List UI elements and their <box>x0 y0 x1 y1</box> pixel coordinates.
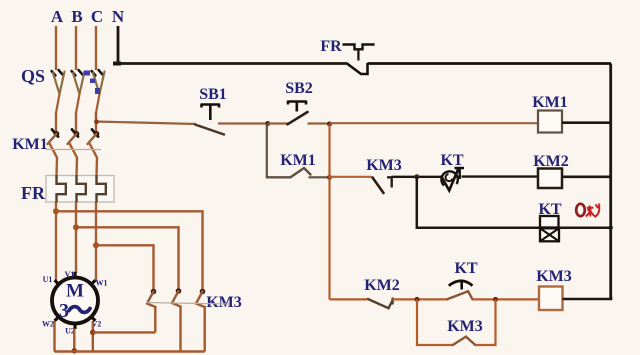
svg-text:V1: V1 <box>65 270 75 279</box>
wire SB1 to node 1 <box>218 122 268 124</box>
wire vertical bus 329 <box>328 124 330 299</box>
wire phase B below FR <box>75 202 77 273</box>
contactor KM1 main pole A <box>48 130 60 177</box>
junction dot right bus <box>609 226 613 230</box>
motor terminal stub W1 upper-right <box>91 280 96 285</box>
wire V2 to KM3 pole1 bottom <box>93 331 156 333</box>
junction dot U2 <box>72 348 78 354</box>
svg-text:B: B <box>71 7 82 26</box>
wire phase C below FR <box>95 202 97 280</box>
wire KM1 aux to node3 <box>309 176 331 178</box>
junction dot node 1 <box>265 121 270 126</box>
pushbutton SB1 blade (NC) <box>195 125 224 135</box>
svg-text:M: M <box>66 281 84 302</box>
disconnect switch QS pole B <box>72 70 85 113</box>
svg-text:QS: QS <box>21 66 45 86</box>
motor terminal stub V2 lower-right <box>91 316 96 321</box>
timer KT delay-close contact (row 3) <box>447 281 472 299</box>
contactor KM2 aux contact (NC) <box>368 299 393 309</box>
wire bottom row from bus 329 <box>330 298 368 300</box>
FR heater element phase C <box>97 175 106 203</box>
junction dot phase A tap <box>53 208 59 214</box>
junction dot node 5 <box>415 297 420 302</box>
control tap from phase C <box>96 113 196 124</box>
contactor KM1 main pole C <box>88 130 100 177</box>
svg-text:A: A <box>51 7 64 26</box>
wire U2 lead down <box>73 329 75 352</box>
junction dot phase C tap <box>93 242 99 248</box>
wire KM2 coil to right bus <box>562 176 611 179</box>
svg-text:KM3: KM3 <box>447 318 483 335</box>
wire KT box to right bus <box>559 226 611 229</box>
svg-text:SB2: SB2 <box>285 80 313 97</box>
thermal contact FR (NC) <box>343 45 612 75</box>
wire KM2 NC to node 5 <box>393 298 448 300</box>
motor M1 circle <box>52 278 98 324</box>
FR heater element phase A <box>57 175 66 203</box>
wire bottom bus W2-U2 to KM3 poles <box>55 350 205 352</box>
wire SB2 to node 2 <box>308 122 331 124</box>
wire phase A tap to KM3 pole 3 <box>56 211 203 291</box>
motor tilde wave <box>69 307 90 313</box>
contactor KM3 aux contact (NO bypass) <box>453 337 476 345</box>
contactor coil KM1 <box>538 111 562 133</box>
wire neutral N vertical <box>117 26 120 64</box>
timer KT delay contact (row 2) <box>441 168 464 191</box>
svg-text:FR: FR <box>320 38 342 55</box>
value label 0s (red) <box>576 204 599 218</box>
wire node1 to SB2 <box>268 122 289 124</box>
disconnect switch QS pole C <box>92 70 105 113</box>
timer KT instant contact box <box>540 216 559 228</box>
svg-text:U1: U1 <box>43 275 53 284</box>
wire node3 to KM3 NC <box>330 176 372 178</box>
svg-text:KT: KT <box>454 260 477 277</box>
wire phase C tap to KM3 pole 1 <box>96 245 154 291</box>
contactor coil KM2 <box>538 169 562 189</box>
svg-text:KM3: KM3 <box>366 157 402 174</box>
contactor KM1 main pole B <box>68 130 80 177</box>
svg-text:KT: KT <box>440 152 463 169</box>
wire KT row3 to node 6 <box>472 298 539 300</box>
disconnect switch QS pole A <box>52 70 65 113</box>
junction dot V2 <box>90 330 96 336</box>
wire KM1 coil to right bus <box>562 121 611 124</box>
svg-text:KM1: KM1 <box>12 136 48 153</box>
svg-text:W1: W1 <box>96 279 108 288</box>
timer KT crossed box <box>540 228 559 241</box>
right vertical bus wire <box>609 64 612 300</box>
svg-text:KM1: KM1 <box>532 94 568 111</box>
junction dot phase B tap <box>73 224 79 230</box>
svg-text:N: N <box>112 7 125 26</box>
contactor KM3 power pole 3 <box>196 289 205 352</box>
wire phase B QS to KM1 <box>75 112 77 131</box>
junction dot node 4 <box>414 174 419 179</box>
junction N corner <box>113 62 121 66</box>
motor terminal stub W2 lower-left <box>55 316 60 321</box>
junction dot node 6 <box>493 297 498 302</box>
FR heater element phase B <box>77 175 86 203</box>
pushbutton SB2 blade (NO) <box>288 112 308 124</box>
wire phase B column top <box>75 26 77 70</box>
wire phase A QS to KM1 <box>55 112 57 131</box>
wire KM3 coil to right bus corner <box>563 297 612 299</box>
wire self-hold branch left <box>266 124 268 178</box>
pushbutton SB1 plunger <box>202 104 220 121</box>
KM1 mechanical link line <box>46 149 101 151</box>
svg-text:KM3: KM3 <box>536 268 572 285</box>
wire KM3 self-hold bypass loop <box>417 299 453 345</box>
wire KT to KM2 coil <box>462 175 539 177</box>
wire phase C QS to KM1 <box>95 112 97 131</box>
wire V2 lead down <box>92 321 94 351</box>
svg-text:KM1: KM1 <box>280 152 316 169</box>
svg-text:KM2: KM2 <box>364 277 400 294</box>
wire bypass right side up <box>475 299 495 345</box>
wire neutral N horizontal to FR contact <box>117 62 346 65</box>
wire KM3 NC to node 4 <box>392 176 442 178</box>
svg-text:C: C <box>91 7 103 26</box>
junction dot node 3 <box>327 175 332 180</box>
motor terminal stub U1 upper-left <box>55 280 60 285</box>
contactor KM1 aux contact (NO) <box>267 168 311 177</box>
motor terminal stub U2 bottom <box>73 323 76 329</box>
wire phase C column top <box>95 26 97 70</box>
junction dot node 2 <box>327 122 332 127</box>
svg-text:FR: FR <box>21 183 46 203</box>
junction dot control tap <box>94 119 99 124</box>
contactor KM3 power pole 2 <box>172 288 181 351</box>
wire phase A below FR <box>55 202 57 280</box>
wire node4 down to KT instant branch <box>417 177 540 228</box>
wire node2 to KM1 coil <box>330 122 539 124</box>
thermal relay FR heater box <box>46 176 114 203</box>
contactor KM3 power pole 1 <box>147 289 156 333</box>
wire W2 lead down <box>55 321 56 352</box>
contactor coil KM3 <box>539 287 563 311</box>
svg-text:W2: W2 <box>42 320 54 329</box>
contactor KM3 aux contact (NC) <box>373 178 384 194</box>
motor terminal stub V1 top <box>73 272 76 278</box>
svg-text:SB1: SB1 <box>199 86 227 103</box>
svg-text:KM3: KM3 <box>206 294 242 311</box>
KM3 power mechanical link <box>146 303 229 305</box>
wire phase A column top <box>55 26 57 70</box>
QS mechanical link (blue dashed) <box>84 71 100 95</box>
pushbutton SB2 plunger <box>288 101 306 112</box>
wire phase B tap to KM3 pole 2 <box>76 227 179 290</box>
